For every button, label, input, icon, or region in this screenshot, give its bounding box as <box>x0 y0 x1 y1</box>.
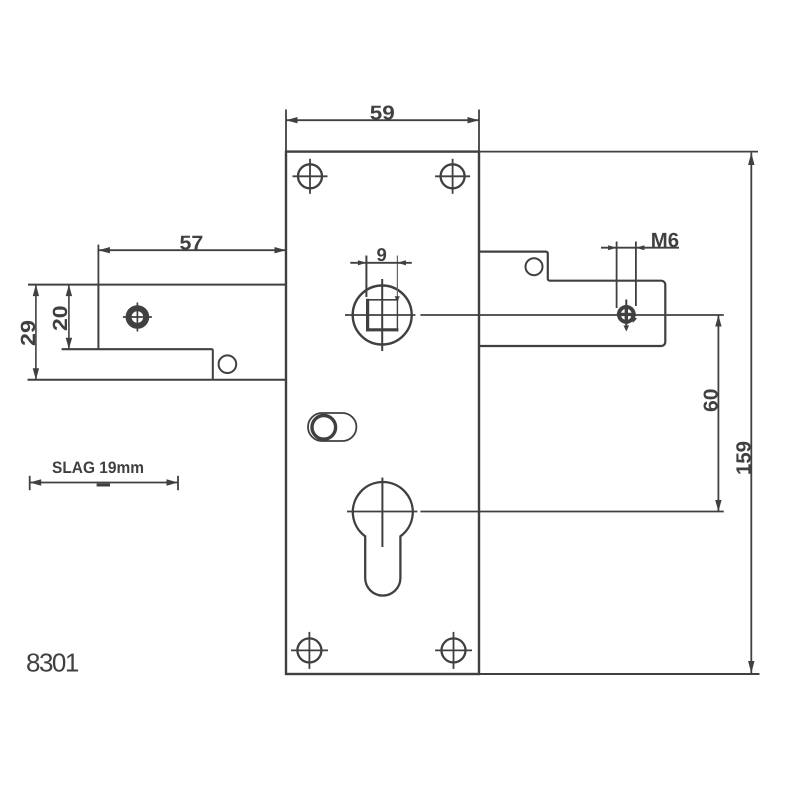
arrowhead 57 right <box>275 247 287 253</box>
screw hole top-right <box>441 164 465 188</box>
arrowhead 57 left <box>98 247 110 253</box>
latch bolt step vertical <box>212 349 214 380</box>
spindle square bottom edge <box>366 328 398 331</box>
cylinder horizontal centerline (left segment) <box>347 511 417 513</box>
dimension line 29 <box>35 285 37 380</box>
svg-text:8301: 8301 <box>26 648 79 678</box>
arrowhead 9 right <box>397 260 406 265</box>
dimension line 57 <box>98 249 286 251</box>
arrowhead 29 top <box>33 285 39 297</box>
spindle square right edge <box>396 299 398 332</box>
svg-text:159: 159 <box>732 441 755 475</box>
guard plate hole <box>526 258 543 275</box>
dimension line 9 <box>350 262 412 264</box>
dimension line SLAG <box>30 482 178 484</box>
latch bolt step edge (with extension) <box>62 348 213 350</box>
screw hole bottom-left <box>297 638 321 662</box>
arrowhead 159 bottom <box>748 661 754 673</box>
spindle square left edge <box>366 299 369 332</box>
SLAG arrow left <box>30 479 42 485</box>
arrowhead M6 right <box>636 245 645 250</box>
horizontal centerline upper (long segment) <box>420 314 723 316</box>
screw hole bottom-right <box>442 638 466 662</box>
extension line right (59 dim) <box>478 110 480 152</box>
M6 extension line left <box>616 242 618 309</box>
svg-text:59: 59 <box>370 102 395 124</box>
dimension line 20 <box>68 285 70 350</box>
SLAG end tick left <box>29 476 31 490</box>
arrowhead M6 left <box>608 245 617 250</box>
dimension line 159 <box>750 153 752 674</box>
arrowhead 20 bottom <box>66 338 72 350</box>
svg-text:SLAG 19mm: SLAG 19mm <box>52 459 144 477</box>
arrowhead 60 top <box>715 315 721 327</box>
horizontal centerline upper (left segment) <box>345 314 415 316</box>
arrowhead 9 left <box>358 260 367 265</box>
bottom edge extension (159 dim) <box>479 673 760 675</box>
arrowhead 59 left <box>286 117 298 123</box>
cylinder hole profile <box>353 482 413 596</box>
SLAG center tick <box>97 484 110 487</box>
svg-text:M6: M6 <box>651 229 679 252</box>
extension line 9 left <box>365 256 367 298</box>
latch bolt left edge <box>97 285 99 350</box>
arrowhead 29 bottom <box>33 368 39 380</box>
bolt small hole <box>219 355 237 373</box>
dimension line 59 <box>286 119 479 121</box>
leader arrow at square corner <box>395 296 400 302</box>
svg-text:29: 29 <box>17 320 40 346</box>
slot bold circle <box>312 416 336 440</box>
arrowhead 59 right <box>468 117 480 123</box>
bolt pivot crosshair <box>129 308 147 326</box>
lock case plate outline <box>286 152 479 674</box>
spindle follower circle <box>353 286 412 345</box>
guard plate top edge <box>480 252 665 346</box>
SLAG end tick right <box>177 476 179 490</box>
extension line 9 right <box>396 256 398 300</box>
svg-text:20: 20 <box>49 305 72 331</box>
arrowhead 159 top <box>748 153 754 165</box>
svg-text:60: 60 <box>700 388 722 412</box>
arrowhead 60 bottom <box>715 500 721 512</box>
svg-text:9: 9 <box>376 244 386 265</box>
cylinder horizontal centerline (long segment) <box>420 511 723 513</box>
M6 dimension line <box>601 247 679 249</box>
SLAG arrow right <box>167 479 179 485</box>
dimension line 60 <box>717 315 719 512</box>
arrowhead 20 top <box>66 285 72 297</box>
screw hole top-left <box>298 164 322 188</box>
cylinder vertical centerline <box>381 478 383 547</box>
top edge extension (159 dim) <box>479 151 758 153</box>
follower vertical centerline <box>381 279 383 351</box>
spindle square top edge <box>366 299 398 301</box>
svg-text:57: 57 <box>180 233 204 255</box>
M6 extension line right <box>635 242 637 307</box>
extension line left (59 dim) <box>285 110 287 152</box>
extension line 57 <box>97 245 99 285</box>
latch bolt bottom edge (with extension) <box>28 379 287 381</box>
M6 screw symbol <box>617 305 636 324</box>
slot stadium <box>308 413 356 441</box>
latch bolt top edge (with extension) <box>28 284 286 286</box>
